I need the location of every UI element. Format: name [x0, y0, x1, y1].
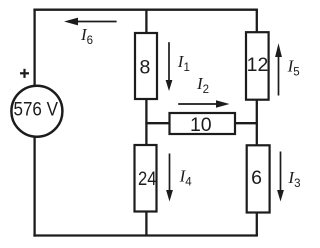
- wire R12 to R6: [256, 99, 258, 146]
- wire bottom: [33, 234, 258, 236]
- plus polarity mark: [20, 69, 29, 78]
- wire R24 to bottom: [145, 211, 147, 236]
- svg-text:6: 6: [251, 167, 262, 189]
- wire top: [33, 9, 258, 11]
- wire R10 to node B: [235, 122, 258, 124]
- svg-text:I2: I2: [196, 74, 209, 96]
- wire left upper: [33, 9, 35, 87]
- wire node A to R10: [145, 122, 170, 124]
- svg-text:I1: I1: [177, 52, 190, 74]
- current arrow I3: [277, 152, 284, 202]
- svg-text:10: 10: [190, 114, 212, 136]
- resistor R5 value 6: [247, 145, 270, 212]
- svg-text:I4: I4: [179, 166, 193, 188]
- wire top to R8: [145, 9, 147, 34]
- current arrow I6: [64, 18, 117, 26]
- wire top to R12: [256, 9, 258, 33]
- resistor R3 value 10: [170, 113, 236, 136]
- current arrow I5: [275, 43, 282, 95]
- svg-text:24: 24: [138, 168, 157, 190]
- current arrow I1: [166, 42, 173, 91]
- svg-text:576 V: 576 V: [14, 99, 59, 121]
- resistor R1 value 8: [135, 33, 157, 99]
- wire left lower: [33, 137, 35, 237]
- wire R8 to R24: [145, 99, 147, 146]
- resistor R2 value 12: [246, 32, 269, 100]
- svg-text:I3: I3: [287, 168, 300, 190]
- resistor R4 value 24: [135, 145, 157, 212]
- current arrow I4: [166, 154, 173, 202]
- voltage source V1 576 V: [11, 86, 62, 137]
- wire R6 to bottom: [256, 212, 258, 236]
- svg-text:12: 12: [247, 54, 269, 76]
- current arrow I2: [178, 100, 229, 108]
- svg-text:I5: I5: [287, 57, 300, 79]
- svg-text:I6: I6: [80, 25, 93, 47]
- svg-text:8: 8: [139, 57, 150, 79]
